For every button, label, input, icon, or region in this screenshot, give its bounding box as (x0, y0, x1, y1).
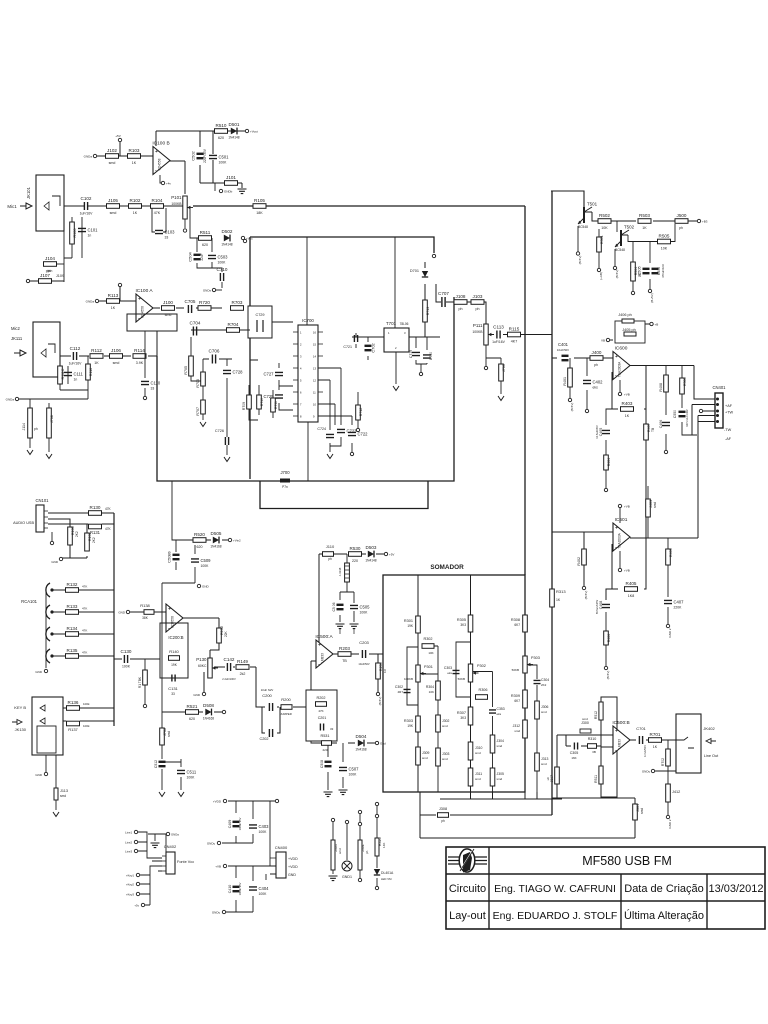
svg-text:2K2: 2K2 (541, 683, 547, 687)
resistor R408 (664, 375, 669, 392)
svg-text:IC100 B: IC100 B (152, 141, 169, 147)
wire r409 c407 (667, 538, 669, 624)
svg-text:C512: C512 (154, 760, 158, 768)
svg-text:2K2: 2K2 (92, 537, 96, 543)
svg-text:C701: C701 (636, 726, 646, 731)
capacitor C512 (159, 761, 166, 768)
svg-text:1K: 1K (625, 414, 630, 418)
capacitor C705 (185, 299, 196, 313)
svg-text:C721: C721 (343, 345, 352, 349)
jumper J308 (438, 813, 449, 818)
wire ic600 pwr (619, 380, 621, 392)
svg-text:Line1: Line1 (125, 831, 132, 835)
svg-text:R713: R713 (426, 307, 430, 316)
svg-text:smd: smd (541, 710, 547, 714)
svg-text:+: + (615, 729, 618, 735)
svg-text:+5v: +5v (134, 904, 139, 908)
wire mic2 rc (44, 356, 88, 399)
svg-text:1N4168: 1N4168 (355, 748, 366, 752)
jumper J306 (535, 701, 540, 719)
resistor R100b (68, 527, 73, 545)
resistor R132 (66, 582, 79, 593)
potentiometer P302 (468, 664, 478, 682)
svg-text:GND 2: GND 2 (668, 819, 672, 829)
svg-text:+VB: +VB (215, 865, 221, 869)
svg-text:2k2: 2k2 (240, 672, 246, 676)
wire T701 output caps (409, 337, 440, 372)
connector CN401 (712, 385, 733, 441)
resistor R133 (66, 604, 79, 615)
svg-text:R705: R705 (184, 366, 188, 375)
resistor R202 (316, 702, 327, 707)
ground J708 (46, 454, 52, 459)
svg-text:P101: P101 (171, 195, 182, 200)
wire cn402 upper (138, 832, 166, 861)
resistor J400 (590, 350, 603, 361)
svg-text:Data de Criação: Data de Criação (624, 883, 704, 895)
svg-text:(B-5V): (B-5V) (606, 671, 610, 680)
wire main bus (551, 191, 553, 815)
capacitor C302 (404, 689, 411, 692)
wire shield to ic700 (248, 322, 293, 360)
svg-text:R111C: R111C (61, 368, 65, 379)
wire gnds (216, 289, 222, 291)
svg-text:C724: C724 (317, 427, 326, 431)
wire p111 bottom (486, 345, 501, 394)
wire vdd rail (222, 801, 275, 866)
svg-text:47K: 47K (105, 527, 112, 531)
resistor R709 (247, 395, 252, 409)
svg-text:38K: 38K (142, 616, 149, 620)
ground J101 (238, 189, 247, 194)
capacitor C111 (64, 372, 84, 382)
svg-text:IC200:B: IC200:B (168, 635, 183, 640)
svg-text:smd: smd (442, 724, 448, 728)
jumper J405 (624, 332, 636, 336)
wire cn400 stubs (266, 866, 276, 880)
resistor R135 (66, 648, 79, 659)
capacitor C103 (155, 230, 175, 240)
resistor R505 (658, 233, 671, 250)
capacitor C101 (78, 228, 98, 238)
resistor R713 (423, 300, 428, 322)
connector RCA jack 2 (46, 605, 54, 619)
jumper J300 (580, 717, 591, 733)
svg-text:J100: J100 (163, 300, 173, 305)
jumper J311 (468, 768, 473, 786)
svg-text:smd: smd (475, 777, 481, 781)
svg-text:R501: R501 (600, 235, 604, 244)
svg-text:47K: 47K (105, 507, 112, 511)
resistor R307 (468, 707, 473, 725)
svg-text:-TW: -TW (724, 428, 732, 432)
wire ic601 pwr (619, 508, 621, 568)
svg-text:R301: R301 (404, 619, 413, 623)
resistor R115 (508, 326, 521, 343)
resistor R504 (631, 262, 636, 281)
svg-text:J110: J110 (326, 544, 335, 549)
svg-text:+: + (168, 607, 171, 613)
diode D701 (422, 271, 428, 277)
svg-text:+Key1: +Key1 (126, 874, 134, 878)
svg-text:smd: smd (109, 161, 116, 165)
svg-text:R116: R116 (89, 368, 93, 376)
svg-text:GNDy: GNDy (207, 842, 216, 846)
svg-text:JUMPER: JUMPER (280, 712, 292, 716)
svg-text:R202: R202 (316, 696, 325, 700)
wire ic601 input (552, 532, 613, 586)
resistor R100 (70, 222, 75, 244)
svg-text:ph: ph (365, 850, 369, 854)
resistor R204 (376, 663, 381, 679)
node +B out (697, 219, 707, 223)
svg-text:3.9K: 3.9K (136, 361, 144, 365)
svg-text:R100: R100 (73, 228, 77, 237)
wire rca 3 (52, 633, 114, 635)
svg-text:J310: J310 (475, 746, 482, 750)
IC IC700 (293, 318, 323, 422)
svg-text:(B-5V): (B-5V) (615, 270, 619, 279)
svg-text:100KB: 100KB (171, 202, 182, 206)
wire ic601 out fb (606, 538, 698, 600)
svg-text:C403: C403 (259, 824, 270, 829)
node +4v (161, 181, 171, 185)
node cn402 gnd (166, 832, 179, 836)
wire tuner box bottom J700 run (157, 297, 454, 481)
svg-text:R113: R113 (108, 293, 119, 298)
svg-text:1n: 1n (74, 378, 78, 382)
resistor R720 (198, 300, 211, 311)
svg-text:10uF/50V: 10uF/50V (557, 348, 569, 352)
svg-text:+: + (155, 149, 158, 155)
capacitor C505 (350, 605, 370, 615)
wire r408 r500 (666, 366, 697, 451)
svg-text:C401: C401 (558, 342, 569, 347)
svg-text:1K: 1K (556, 598, 561, 602)
svg-text:J300: J300 (581, 721, 589, 725)
svg-text:22uF/35V: 22uF/35V (203, 148, 207, 163)
svg-text:47K: 47K (154, 211, 161, 215)
node antenna (432, 254, 435, 257)
capacitor C508 (325, 761, 332, 768)
node ic600 pwr (618, 392, 629, 396)
svg-text:IC600: IC600 (615, 346, 628, 352)
wire vb rail (226, 866, 272, 912)
svg-text:100uF 25V: 100uF 25V (238, 817, 242, 830)
resistor R500 (680, 378, 685, 394)
resistor R706 (201, 372, 206, 386)
capacitor C504 (188, 251, 204, 261)
wire r133b (144, 659, 146, 704)
wire T501 emitter (577, 226, 579, 252)
svg-text:C302: C302 (395, 685, 403, 689)
svg-text:C730: C730 (429, 352, 433, 360)
svg-text:R703: R703 (232, 300, 243, 305)
capacitor C410 (233, 886, 240, 893)
svg-text:smd: smd (165, 313, 172, 317)
wire c405 r404 (606, 409, 618, 488)
svg-text:C409: C409 (228, 820, 232, 829)
resistor R203 (338, 646, 351, 663)
svg-text:VB: VB (601, 339, 605, 343)
svg-text:smd: smd (582, 717, 588, 721)
node c402 gnd (585, 409, 588, 412)
ground C724 (327, 454, 333, 459)
svg-text:J105: J105 (108, 198, 118, 203)
wire somador col1 (417, 575, 419, 792)
resistor R704 (227, 322, 240, 333)
svg-text:4.7uF/50V: 4.7uF/50V (643, 745, 647, 757)
svg-text:R134: R134 (67, 626, 78, 631)
svg-text:C706: C706 (209, 349, 220, 354)
capacitor C203 (362, 650, 365, 658)
capacitor C200 (269, 703, 272, 711)
svg-text:Line Out: Line Out (704, 754, 719, 758)
svg-text:smd: smd (514, 729, 520, 733)
svg-text:16K: 16K (571, 756, 576, 760)
capacitor C702 (365, 342, 376, 352)
jumper J404 (331, 840, 335, 870)
svg-text:R308: R308 (511, 618, 520, 622)
resistor R200 (281, 705, 292, 710)
svg-text:smd: smd (640, 808, 644, 814)
ground cn402 (151, 843, 160, 848)
svg-text:R502: R502 (599, 213, 610, 218)
box SOMADOR (383, 575, 525, 792)
capacitor C201 (320, 724, 323, 731)
svg-text:AUDIO USB: AUDIO USB (13, 521, 34, 525)
svg-text:(B+5V): (B+5V) (650, 293, 654, 302)
resistor R521 (186, 704, 199, 721)
svg-text:GND: GND (118, 611, 126, 615)
wire R100 C101 branch (64, 217, 82, 258)
svg-text:(B-5V): (B-5V) (378, 697, 382, 706)
box IC500B feedback (601, 697, 617, 797)
svg-text:C103: C103 (165, 230, 176, 235)
svg-text:R149: R149 (237, 659, 248, 664)
svg-text:R530: R530 (350, 546, 361, 551)
svg-text:C511: C511 (187, 770, 197, 775)
ground C512 (159, 792, 165, 797)
wire r406 (605, 612, 607, 666)
svg-text:eks: eks (593, 386, 599, 390)
svg-text:IC700: IC700 (302, 318, 314, 323)
svg-text:C112: C112 (70, 346, 81, 351)
node box tap (243, 239, 246, 242)
svg-text:10uF N2V: 10uF N2V (261, 688, 274, 692)
resistor R511b (599, 766, 603, 784)
ground C726 (224, 457, 230, 462)
wire cn402 lower (140, 866, 162, 905)
svg-text:100K: 100K (219, 161, 228, 165)
wire mic1 bus to somador (193, 206, 525, 575)
node r712 term (356, 428, 359, 431)
svg-text:smd: smd (110, 211, 117, 215)
svg-text:100K: 100K (259, 830, 268, 834)
node gnda3 (86, 299, 99, 303)
svg-text:1n: 1n (88, 234, 92, 238)
wire somador col2 (470, 575, 472, 792)
svg-text:+: + (615, 354, 618, 360)
svg-text:C505: C505 (637, 265, 642, 275)
op-amp IC601 (613, 517, 630, 551)
svg-text:P301: P301 (424, 665, 433, 669)
node r401 gnd (568, 398, 571, 401)
jumper J412 (666, 784, 671, 802)
svg-text:+: + (318, 643, 321, 649)
wire gnd stubs (340, 629, 354, 634)
svg-text:Fonte Vcc: Fonte Vcc (177, 860, 194, 864)
svg-text:GND: GND (35, 773, 43, 777)
connector RCA jack 3 (46, 627, 54, 641)
svg-text:J303: J303 (442, 752, 449, 756)
svg-text:ph: ph (328, 557, 332, 561)
svg-text:GNDa: GNDa (171, 833, 179, 837)
resistor R152 (217, 628, 222, 643)
wire J403 (647, 486, 649, 538)
svg-text:R709: R709 (242, 402, 246, 410)
arrow key input (12, 720, 22, 725)
svg-text:13/03/2012: 13/03/2012 (708, 883, 763, 895)
svg-text:C202: C202 (259, 737, 268, 741)
svg-text:smd: smd (653, 502, 657, 508)
svg-text:R512: R512 (594, 711, 598, 719)
svg-text:3B: 3B (592, 750, 596, 754)
svg-text:eks: eks (447, 671, 452, 675)
svg-text:LM833: LM833 (618, 739, 622, 749)
capacitor C402 (583, 380, 603, 390)
svg-text:C5 06: C5 06 (332, 602, 336, 611)
wire j406 stub (610, 324, 650, 340)
svg-text:CN400: CN400 (275, 845, 288, 850)
svg-text:Lay-out: Lay-out (449, 910, 486, 922)
resistor J500 (675, 213, 688, 224)
svg-text:smd: smd (113, 361, 120, 365)
potentiometer P101 (171, 195, 193, 219)
svg-text:DL401A: DL401A (381, 871, 394, 875)
svg-text:J305: J305 (497, 772, 504, 776)
svg-text:47K: 47K (82, 607, 87, 611)
wire rca common (45, 590, 47, 668)
node j401 top a (358, 810, 361, 813)
node r138 gnd (118, 610, 129, 614)
wire c706 r706 chain (203, 359, 232, 455)
node d505 term (228, 538, 241, 542)
wire IC100A out (153, 307, 252, 309)
svg-text:47K: 47K (82, 629, 87, 633)
resistor R409 (666, 549, 671, 565)
svg-text:1K: 1K (133, 211, 138, 215)
svg-text:R702: R702 (661, 758, 665, 766)
capacitor C550 (679, 411, 686, 418)
node c406 gnd (664, 450, 667, 453)
node d504 term (375, 741, 386, 745)
node r113 top (118, 283, 121, 286)
resistor R403 (621, 401, 634, 418)
wire p130 to c200 (214, 667, 262, 707)
svg-text:22uF: 22uF (200, 253, 204, 260)
wire rca 4 (52, 655, 114, 657)
svg-text:R1 TBK: R1 TBK (138, 676, 142, 688)
svg-text:2K2: 2K2 (75, 531, 79, 537)
svg-text:D501: D501 (229, 122, 240, 127)
svg-text:R720: R720 (199, 300, 210, 305)
box C729 shield (248, 306, 272, 338)
potentiometer P303 (523, 656, 533, 673)
svg-text:smd: smd (497, 744, 503, 748)
wire T502 base (616, 221, 618, 232)
svg-text:R105: R105 (254, 198, 265, 203)
capacitor C304 (534, 680, 541, 683)
transistor T502 (615, 225, 635, 253)
svg-text:R403: R403 (622, 401, 633, 406)
ground C507 (339, 790, 348, 795)
resistor J105 (107, 198, 120, 215)
svg-text:(B-5V): (B-5V) (578, 256, 582, 265)
wire 5v cluster (190, 206, 222, 272)
resistor R420 (375, 838, 379, 856)
capacitor C409 (233, 821, 240, 828)
logo company emblem (448, 849, 487, 873)
svg-text:C201: C201 (318, 716, 327, 720)
svg-text:C130: C130 (121, 649, 132, 654)
node key gnd (35, 772, 47, 777)
svg-text:TDA2003A: TDA2003A (618, 532, 622, 548)
svg-text:C200: C200 (262, 693, 272, 698)
svg-text:TB: TB (651, 428, 655, 432)
jumper J107 (39, 273, 52, 284)
svg-text:Eng. TIAGO W. CAFRUNI: Eng. TIAGO W. CAFRUNI (494, 883, 616, 895)
symbol GND1 (342, 861, 352, 879)
node Vout (245, 129, 258, 133)
connector JK402 line out jack (676, 714, 719, 773)
resistor R501 (597, 237, 602, 252)
wire rca 2 (52, 611, 114, 613)
svg-text:J109: J109 (56, 274, 64, 278)
svg-text:smd: smd (60, 794, 66, 798)
svg-text:50KB: 50KB (512, 668, 519, 672)
node j401 top b (358, 822, 361, 825)
svg-text:R521: R521 (187, 704, 198, 709)
svg-text:R200: R200 (281, 697, 291, 702)
svg-text:IC601: IC601 (615, 517, 628, 523)
resistor R116 (86, 364, 91, 380)
wire ic500a out (333, 654, 383, 692)
svg-text:GND: GND (202, 585, 210, 589)
node r402 gnd (582, 586, 585, 589)
resistor R139 (143, 670, 148, 685)
resistor R531 (322, 741, 332, 746)
wire somador bottom rail (440, 792, 562, 815)
resistor R305 (468, 615, 473, 632)
resistor R111 (58, 366, 63, 384)
wire rf out row (436, 284, 486, 324)
svg-text:33: 33 (330, 727, 334, 731)
svg-text:60KC: 60KC (198, 664, 207, 668)
wire ic500b out (630, 739, 676, 741)
jumper J305 (490, 768, 495, 786)
svg-text:C704: C704 (190, 321, 201, 326)
svg-text:GNDa: GNDa (6, 398, 15, 402)
node J107 (26, 279, 29, 282)
svg-text:1N4148: 1N4148 (365, 559, 376, 563)
svg-text:C710: C710 (217, 267, 228, 272)
svg-text:C111: C111 (74, 372, 84, 377)
wire col1 loop (407, 647, 418, 705)
connector CN400 (270, 845, 298, 878)
resistor R130 (89, 505, 102, 516)
svg-text:CD4558: CD4558 (171, 616, 175, 628)
